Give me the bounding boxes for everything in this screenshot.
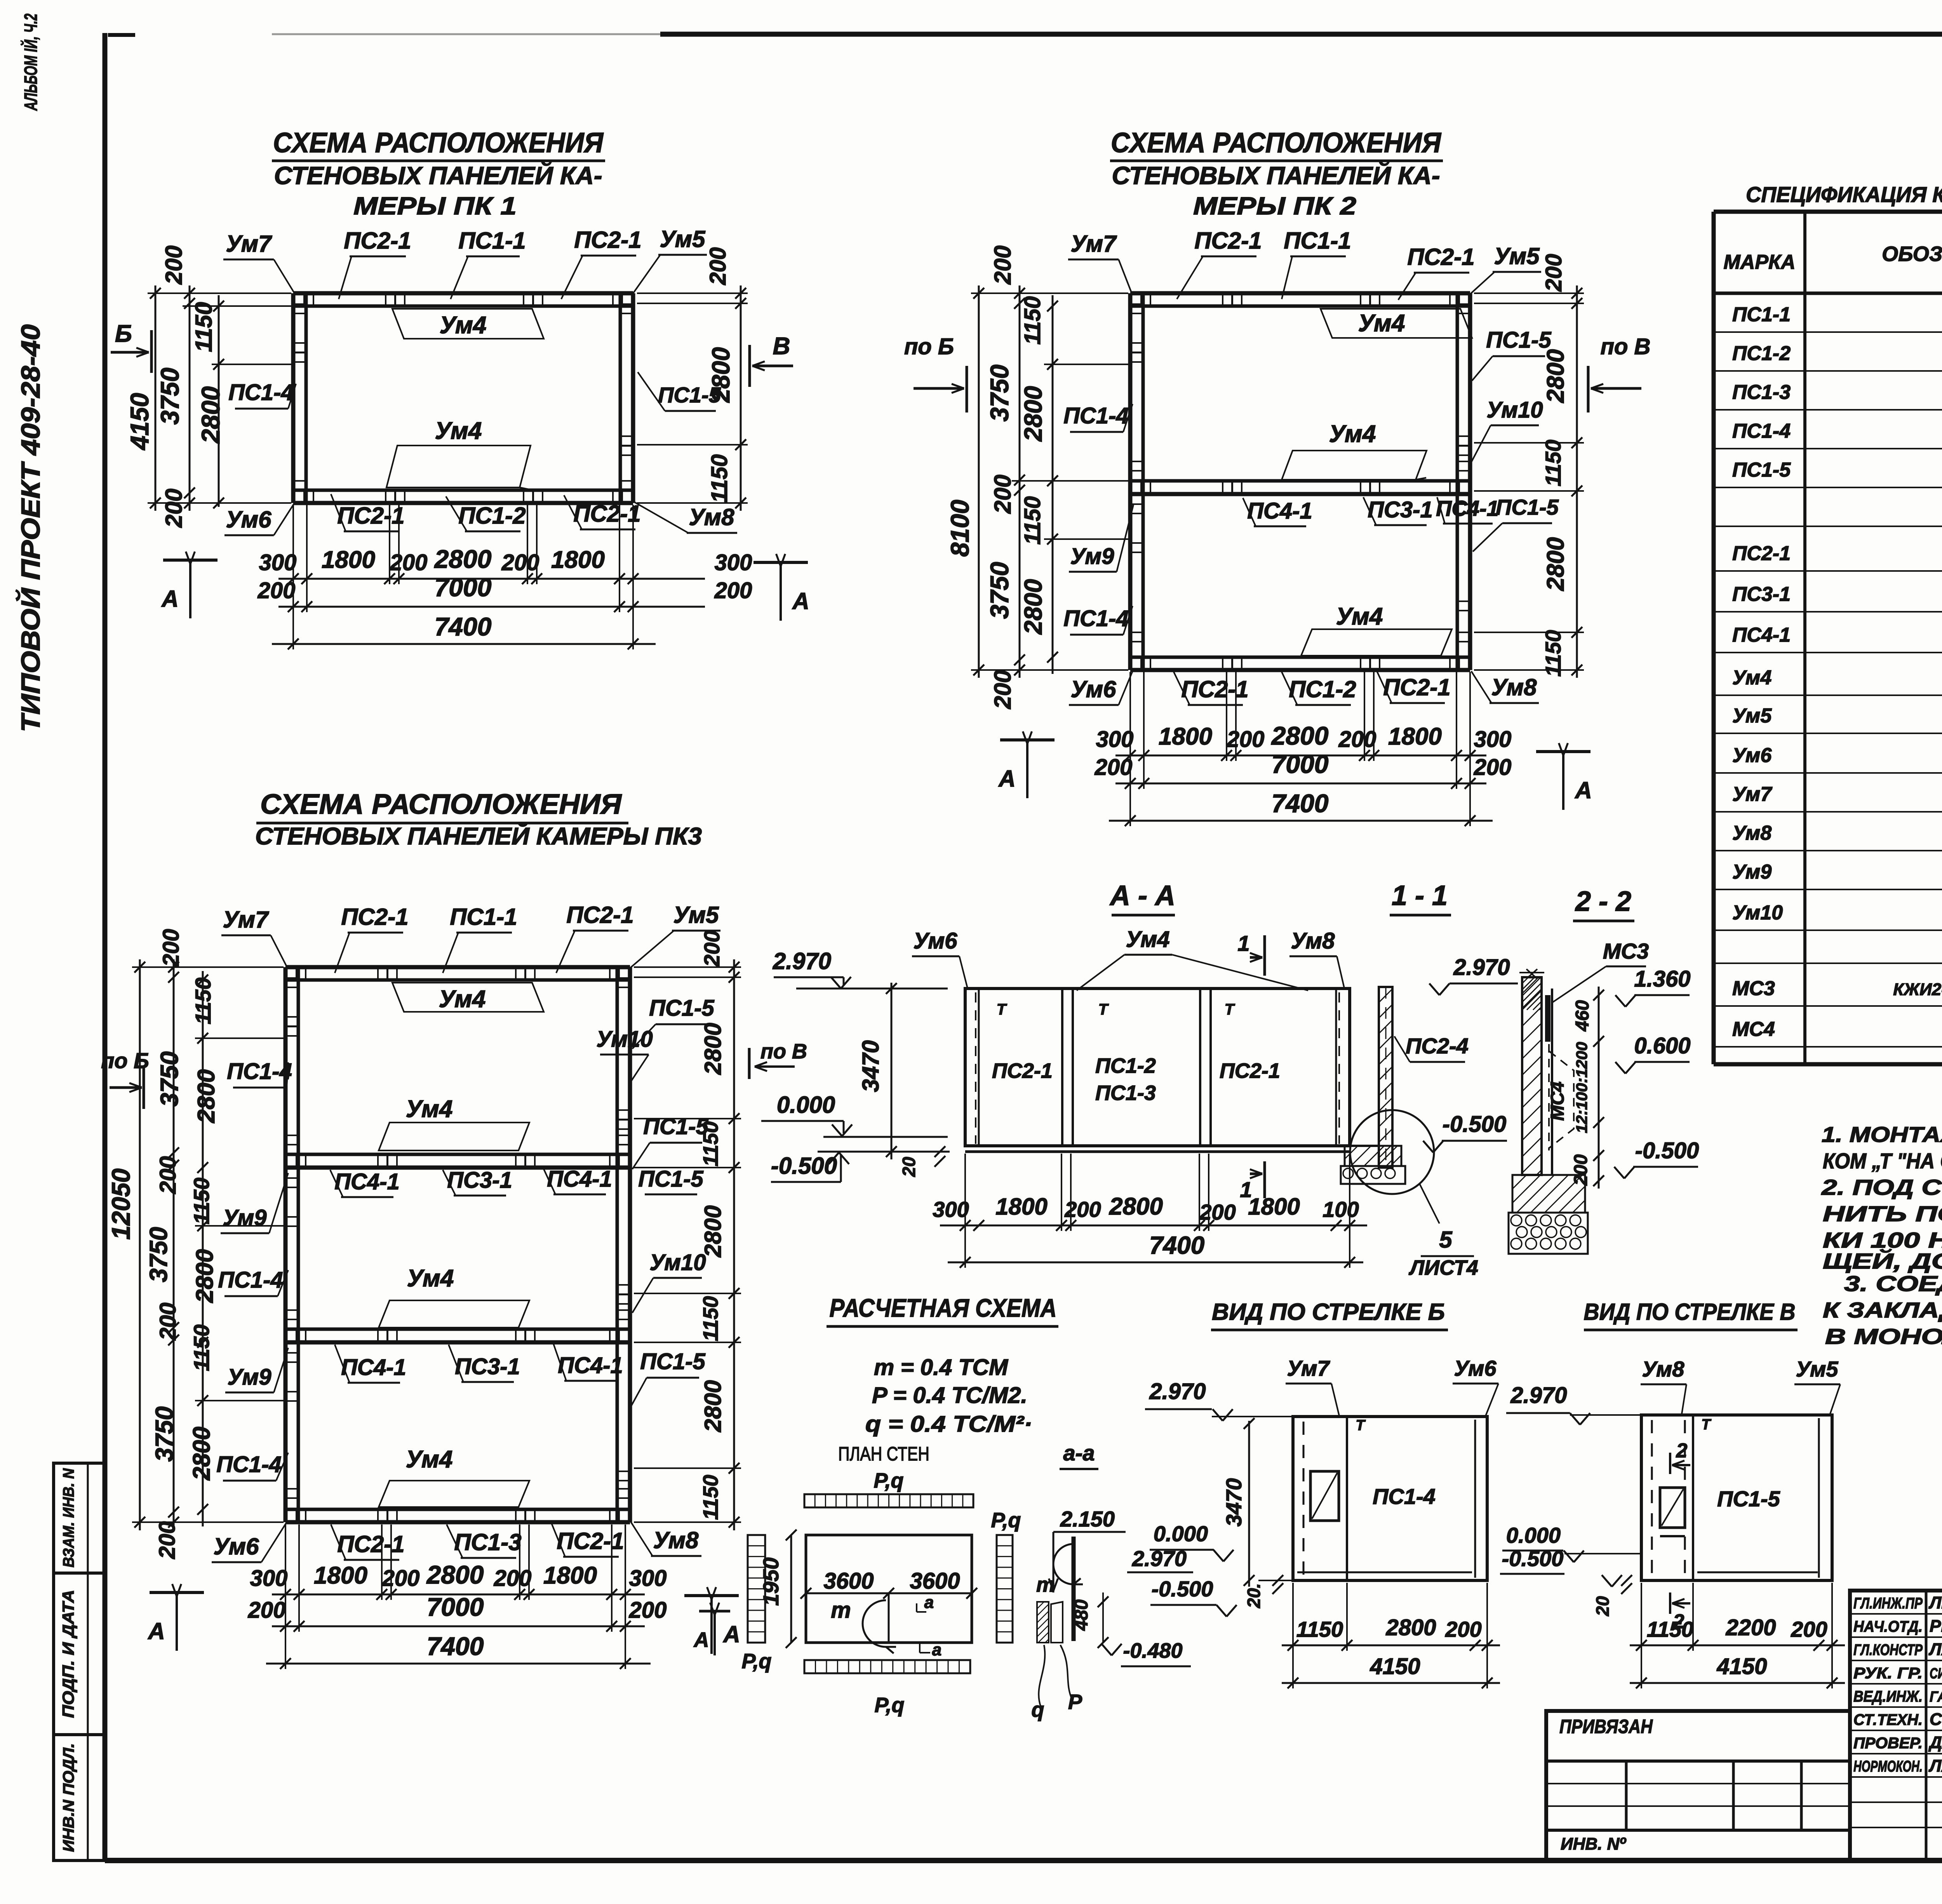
signature row ГЛ.ИНЖ.ПР bbox=[1850, 1613, 1942, 1615]
spec table row ПС4-1 bbox=[1714, 652, 1942, 653]
svg-text:1150: 1150 bbox=[1020, 496, 1045, 545]
svg-text:300: 300 bbox=[933, 1197, 969, 1222]
svg-text:1150: 1150 bbox=[1296, 1617, 1343, 1641]
svg-text:ПС1-4: ПС1-4 bbox=[1063, 606, 1128, 631]
svg-text:7400: 7400 bbox=[427, 1632, 484, 1660]
spec table row Ум6 bbox=[1714, 772, 1942, 774]
svg-text:2.970: 2.970 bbox=[773, 948, 831, 974]
svg-text:ТИПОВОЙ ПРОЕКТ 409-28-40: ТИПОВОЙ ПРОЕКТ 409-28-40 bbox=[15, 324, 45, 732]
svg-text:1150: 1150 bbox=[699, 1121, 722, 1166]
svg-text:Т: Т bbox=[1098, 1001, 1109, 1018]
svg-text:НАЧ.ОТД.: НАЧ.ОТД. bbox=[1853, 1618, 1923, 1635]
view V bottom dims bbox=[1630, 1645, 1845, 1646]
spec table frame bbox=[1714, 210, 1942, 214]
svg-text:q = 0.4 ТС/М²·: q = 0.4 ТС/М²· bbox=[865, 1411, 1032, 1437]
svg-text:q: q bbox=[1032, 1698, 1044, 1721]
section A-A bottom dims row2 bbox=[948, 1262, 1363, 1264]
svg-text:К ЗАКЛАДНОМУ ИЗДЕЛИЮ, ОБРАМЛ: К ЗАКЛАДНОМУ ИЗДЕЛИЮ, ОБРАМЛЯЮЩЕМУ ОТВЕР… bbox=[1823, 1298, 1942, 1322]
svg-text:А: А bbox=[722, 1621, 740, 1647]
plan PK2 left wall bbox=[1128, 293, 1133, 670]
svg-text:-0.500: -0.500 bbox=[771, 1153, 837, 1179]
svg-text:1800: 1800 bbox=[995, 1194, 1047, 1220]
view V mark 2 bottom bbox=[1669, 1592, 1671, 1614]
svg-text:4150: 4150 bbox=[125, 393, 154, 451]
section 1-1 wall bbox=[1379, 987, 1392, 1168]
svg-text:ПС1-1: ПС1-1 bbox=[458, 228, 526, 254]
section A-A bottom dims row1 bbox=[940, 1225, 1367, 1227]
svg-text:ГЛ.КОНСТР: ГЛ.КОНСТР bbox=[1853, 1641, 1923, 1659]
svg-text:ПС3-1: ПС3-1 bbox=[455, 1354, 520, 1379]
spec table row ПС1-4 bbox=[1714, 448, 1942, 449]
svg-text:Ум10: Ум10 bbox=[596, 1027, 653, 1052]
spec table row ПС1-5 bbox=[1714, 487, 1942, 488]
svg-text:Ум5: Ум5 bbox=[673, 902, 720, 928]
plan PK2 bottom dims row2 bbox=[1115, 783, 1486, 785]
svg-text:2800: 2800 bbox=[191, 1249, 218, 1303]
plan PK2 right dims bbox=[1576, 285, 1578, 678]
svg-text:МЕРЫ ПК 2: МЕРЫ ПК 2 bbox=[1193, 192, 1356, 220]
svg-text:СПЕЦИФИКАЦИЯ К СХЕМАМ РАСПОЛ: СПЕЦИФИКАЦИЯ К СХЕМАМ РАСПОЛОЖЕНИЯ СТЕНО… bbox=[1746, 182, 1942, 207]
svg-text:ПС1-2: ПС1-2 bbox=[1289, 676, 1356, 702]
svg-text:ПС1-4: ПС1-4 bbox=[1063, 403, 1128, 428]
svg-text:ПС4-1: ПС4-1 bbox=[1732, 624, 1791, 646]
svg-text:по В: по В bbox=[1601, 334, 1651, 359]
svg-text:ПС1-1: ПС1-1 bbox=[450, 904, 517, 930]
svg-text:Т: Т bbox=[1225, 1001, 1236, 1018]
section A-A panel joints bbox=[978, 989, 980, 1146]
svg-text:ПС2-1: ПС2-1 bbox=[1407, 244, 1474, 270]
svg-text:ДАВЫДОВА: ДАВЫДОВА bbox=[1928, 1733, 1942, 1752]
svg-text:1150: 1150 bbox=[699, 1296, 722, 1341]
svg-text:ОБОЗНАЧЕНИЕ: ОБОЗНАЧЕНИЕ bbox=[1882, 242, 1942, 266]
svg-text:200: 200 bbox=[155, 1521, 180, 1559]
svg-text:200: 200 bbox=[501, 550, 539, 575]
svg-text:МС3: МС3 bbox=[1732, 977, 1775, 1000]
plan PK2 bottom dims row1 bbox=[1115, 755, 1486, 757]
svg-text:Ум5: Ум5 bbox=[1732, 705, 1772, 727]
section mark A bottom-left PK2 bbox=[1000, 738, 1055, 741]
plan PK3 bottom dims row1 bbox=[272, 1594, 645, 1596]
svg-text:ПС2-1: ПС2-1 bbox=[341, 904, 408, 930]
svg-text:Ум10: Ум10 bbox=[649, 1250, 706, 1275]
plan PK2 top wall bbox=[1130, 291, 1470, 296]
signature row НОРМОКОН. bbox=[1850, 1776, 1942, 1778]
svg-text:ПС4-1: ПС4-1 bbox=[334, 1169, 399, 1194]
svg-text:ПС1-5: ПС1-5 bbox=[1717, 1486, 1780, 1511]
svg-text:ВИД ПО СТРЕЛКЕ В: ВИД ПО СТРЕЛКЕ В bbox=[1584, 1299, 1796, 1325]
svg-text:300: 300 bbox=[250, 1566, 288, 1591]
svg-text:2800: 2800 bbox=[426, 1560, 484, 1589]
svg-text:Ум8: Ум8 bbox=[1642, 1357, 1684, 1381]
section a-a q P loads bbox=[1037, 1602, 1049, 1643]
svg-text:ПС1-2: ПС1-2 bbox=[458, 503, 526, 529]
svg-text:СХЕМА РАСПОЛОЖЕНИЯ: СХЕМА РАСПОЛОЖЕНИЯ bbox=[1111, 127, 1441, 158]
svg-text:ПС4-1: ПС4-1 bbox=[547, 1166, 612, 1192]
svg-text:ИНВ. Nº: ИНВ. Nº bbox=[1561, 1834, 1626, 1854]
plan PK1 left dims bbox=[155, 285, 157, 511]
section 2-2 wall bbox=[1522, 977, 1542, 1175]
svg-text:РЫБКИНА: РЫБКИНА bbox=[1930, 1617, 1942, 1636]
svg-text:Ум9: Ум9 bbox=[223, 1205, 267, 1230]
svg-text:1150: 1150 bbox=[189, 1324, 214, 1371]
svg-text:300: 300 bbox=[629, 1566, 667, 1591]
svg-text:2800: 2800 bbox=[1385, 1615, 1436, 1640]
spec table row Ум4 bbox=[1714, 694, 1942, 696]
plan PK1 left wall bbox=[291, 293, 296, 503]
svg-text:7400: 7400 bbox=[1149, 1231, 1204, 1259]
svg-text:7000: 7000 bbox=[1272, 750, 1329, 778]
svg-text:ПС2-1: ПС2-1 bbox=[344, 228, 411, 254]
svg-text:200: 200 bbox=[1338, 727, 1376, 752]
svg-text:Ум9: Ум9 bbox=[1732, 861, 1771, 883]
svg-text:А: А bbox=[693, 1628, 709, 1652]
spec table row ПС1-2 bbox=[1714, 370, 1942, 372]
section mark V right PK1 bbox=[748, 345, 751, 387]
svg-text:Ум5: Ум5 bbox=[1796, 1357, 1838, 1381]
signature row ПРОВЕР. bbox=[1850, 1753, 1942, 1754]
svg-text:СТЕНОВЫХ ПАНЕЛЕЙ КА-: СТЕНОВЫХ ПАНЕЛЕЙ КА- bbox=[274, 161, 602, 190]
svg-text:ПОДП. И ДАТА: ПОДП. И ДАТА bbox=[59, 1590, 77, 1718]
svg-text:А: А bbox=[998, 766, 1015, 792]
svg-text:ПС2-1: ПС2-1 bbox=[574, 227, 641, 253]
svg-text:Ум4: Ум4 bbox=[1358, 310, 1405, 337]
svg-text:P,q: P,q bbox=[874, 1469, 903, 1492]
svg-text:200: 200 bbox=[1095, 755, 1133, 780]
svg-text:2800: 2800 bbox=[1109, 1193, 1163, 1220]
svg-text:Ум8: Ум8 bbox=[1732, 822, 1771, 844]
svg-text:СТЕНОВЫХ ПАНЕЛЕЙ КА-: СТЕНОВЫХ ПАНЕЛЕЙ КА- bbox=[1112, 161, 1440, 190]
section 1-1 detail circle 5 bbox=[1350, 1110, 1434, 1194]
spec table row blank bbox=[1714, 526, 1942, 527]
svg-text:1800: 1800 bbox=[1388, 723, 1442, 750]
svg-text:2800: 2800 bbox=[196, 386, 225, 444]
svg-text:3750: 3750 bbox=[155, 367, 184, 425]
svg-text:Ум6: Ум6 bbox=[914, 928, 958, 954]
signature row НАЧ.ОТД. bbox=[1850, 1636, 1942, 1638]
svg-text:НОРМОКОН.: НОРМОКОН. bbox=[1853, 1758, 1923, 1775]
plan PK3 bottom wall bbox=[285, 1520, 630, 1525]
calc scheme A arrow left bbox=[699, 1610, 730, 1613]
svg-text:по Б: по Б bbox=[904, 334, 954, 359]
svg-text:P = 0.4 ТС/М2.: P = 0.4 ТС/М2. bbox=[872, 1383, 1027, 1408]
plan PK1 top wall bbox=[293, 291, 633, 296]
plan PK3 divider wall 1 bbox=[285, 1166, 630, 1170]
svg-text:200: 200 bbox=[629, 1598, 667, 1623]
svg-text:Ум6: Ум6 bbox=[1732, 744, 1772, 767]
svg-text:ЛЮБАВИН: ЛЮБАВИН bbox=[1928, 1593, 1942, 1612]
svg-text:ПС1-2: ПС1-2 bbox=[1095, 1054, 1156, 1077]
svg-text:Ум7: Ум7 bbox=[226, 231, 273, 257]
plan PK2 middle wall bbox=[1130, 492, 1470, 496]
svg-text:МС4: МС4 bbox=[1732, 1018, 1775, 1041]
svg-text:1. МОНТАЖ СТЕНОВЫХ ПАНЕЛЕЙ: 1. МОНТАЖ СТЕНОВЫХ ПАНЕЛЕЙ ВЕСТИ В СООТВ… bbox=[1822, 1122, 1942, 1147]
svg-text:ПС2-1: ПС2-1 bbox=[1181, 676, 1248, 702]
spec table row МС3 bbox=[1714, 1005, 1942, 1007]
svg-text:А: А bbox=[147, 1618, 165, 1644]
view V panel bbox=[1641, 1415, 1832, 1580]
svg-text:ПС4-1: ПС4-1 bbox=[1436, 496, 1499, 520]
svg-text:Ум8: Ум8 bbox=[1291, 928, 1335, 954]
svg-text:2800: 2800 bbox=[1019, 579, 1047, 635]
svg-text:Ум8: Ум8 bbox=[1491, 674, 1537, 700]
svg-text:РУК. ГР.: РУК. ГР. bbox=[1853, 1665, 1923, 1682]
svg-text:300: 300 bbox=[259, 550, 297, 575]
svg-text:480: 480 bbox=[1071, 1599, 1092, 1631]
svg-text:ПРОВЕР.: ПРОВЕР. bbox=[1853, 1735, 1923, 1752]
signature table bbox=[1850, 1591, 1942, 1860]
section A-A mark 1 bottom bbox=[1263, 1161, 1266, 1198]
svg-text:200: 200 bbox=[382, 1566, 420, 1591]
svg-text:ПС2-1: ПС2-1 bbox=[1383, 674, 1450, 700]
svg-text:20: 20 bbox=[899, 1157, 919, 1177]
svg-text:2800: 2800 bbox=[700, 1023, 726, 1075]
svg-text:ПС2-1: ПС2-1 bbox=[1194, 228, 1262, 254]
svg-text:P,q: P,q bbox=[874, 1693, 904, 1717]
svg-text:2800: 2800 bbox=[707, 347, 735, 403]
svg-text:а: а bbox=[924, 1593, 934, 1612]
calc scheme right load strip bbox=[997, 1535, 1013, 1643]
plan PK3 top wall bbox=[285, 965, 630, 969]
svg-text:Ум7: Ум7 bbox=[1071, 231, 1117, 257]
svg-text:2 - 2: 2 - 2 bbox=[1575, 886, 1631, 917]
svg-text:300: 300 bbox=[1474, 727, 1512, 752]
svg-text:ПС2-1: ПС2-1 bbox=[337, 1531, 404, 1557]
svg-text:3750: 3750 bbox=[155, 1051, 183, 1107]
svg-text:Ум7: Ум7 bbox=[1287, 1356, 1330, 1380]
svg-text:Ум6: Ум6 bbox=[1071, 676, 1117, 702]
plan PK3 left wall bbox=[284, 967, 288, 1522]
svg-text:ЛАПКИН: ЛАПКИН bbox=[1928, 1756, 1942, 1775]
svg-text:ПС1-4: ПС1-4 bbox=[216, 1452, 281, 1477]
section 2-2 MS3 bar bbox=[1545, 995, 1550, 1042]
svg-text:200: 200 bbox=[1791, 1617, 1827, 1641]
section 2-2 foundation bbox=[1512, 1175, 1585, 1213]
svg-text:m = 0.4 ТСМ: m = 0.4 ТСМ bbox=[874, 1355, 1009, 1380]
spec table row Ум10 bbox=[1714, 929, 1942, 931]
svg-text:m: m bbox=[1036, 1573, 1055, 1596]
spec table row МС4 bbox=[1714, 1046, 1942, 1048]
svg-text:2800: 2800 bbox=[434, 545, 492, 573]
svg-text:200: 200 bbox=[714, 578, 752, 603]
svg-text:ПРИВЯЗАН: ПРИВЯЗАН bbox=[1559, 1716, 1653, 1737]
svg-text:200: 200 bbox=[158, 929, 184, 967]
svg-text:3. СОЕДИНИТЕЛЬНЫЕ ИЗДЕЛИЯ: 3. СОЕДИНИТЕЛЬНЫЕ ИЗДЕЛИЯ МС3, МС4 ПРИВА… bbox=[1844, 1271, 1942, 1296]
view B dim 3470 bbox=[1248, 1421, 1250, 1587]
svg-text:Ум10: Ум10 bbox=[1486, 397, 1543, 423]
section 2-2 vert dim chain bbox=[1598, 987, 1600, 1189]
signature row ГЛ.КОНСТР bbox=[1850, 1660, 1942, 1661]
svg-text:3470: 3470 bbox=[1222, 1478, 1246, 1527]
svg-text:Ум4: Ум4 bbox=[406, 1446, 453, 1473]
svg-text:ПС3-1: ПС3-1 bbox=[1732, 583, 1791, 606]
svg-text:200: 200 bbox=[155, 1156, 181, 1194]
svg-text:2.150: 2.150 bbox=[1060, 1507, 1115, 1531]
svg-text:СТЕНОВЫХ ПАНЕЛЕЙ КАМЕРЫ ПК3: СТЕНОВЫХ ПАНЕЛЕЙ КАМЕРЫ ПК3 bbox=[255, 822, 702, 850]
svg-text:ПС1-4: ПС1-4 bbox=[1732, 420, 1791, 442]
sheet border frame bbox=[103, 33, 108, 1860]
svg-text:0.600: 0.600 bbox=[1634, 1033, 1690, 1058]
svg-text:300: 300 bbox=[1096, 727, 1134, 752]
svg-text:0.000: 0.000 bbox=[1154, 1521, 1208, 1546]
svg-text:МАРКА: МАРКА bbox=[1723, 251, 1795, 273]
plan PK3 right dims bbox=[733, 959, 735, 1530]
svg-text:ПС1-2: ПС1-2 bbox=[1732, 342, 1791, 365]
svg-text:Т: Т bbox=[1356, 1417, 1366, 1434]
svg-text:0.000: 0.000 bbox=[1506, 1523, 1561, 1547]
spec table row ПС1-3 bbox=[1714, 409, 1942, 411]
svg-text:по Б: по Б bbox=[101, 1048, 149, 1073]
svg-text:20.: 20. bbox=[1244, 1583, 1264, 1608]
svg-text:4150: 4150 bbox=[1369, 1654, 1420, 1679]
svg-text:ПС1-4: ПС1-4 bbox=[228, 380, 293, 405]
svg-text:ПС1-5: ПС1-5 bbox=[1732, 459, 1791, 481]
plan PK1 right dims bbox=[740, 285, 742, 511]
svg-text:ПС1-3: ПС1-3 bbox=[454, 1529, 521, 1555]
svg-text:Ум9: Ум9 bbox=[228, 1364, 271, 1390]
plan PK1 bottom dims row1 bbox=[278, 578, 705, 580]
svg-text:ПС1-5: ПС1-5 bbox=[1486, 327, 1551, 353]
svg-text:3600: 3600 bbox=[910, 1568, 960, 1594]
svg-text:2800: 2800 bbox=[1542, 349, 1569, 403]
view B bottom dims bbox=[1282, 1645, 1500, 1646]
calc scheme main rect bbox=[806, 1535, 972, 1643]
signature row ВЕД.ИНЖ. bbox=[1850, 1706, 1942, 1708]
svg-text:ПС4-1: ПС4-1 bbox=[341, 1355, 406, 1380]
plan PK2 bottom wall bbox=[1130, 668, 1470, 672]
svg-text:3750: 3750 bbox=[144, 1227, 172, 1282]
svg-text:ПС1-5: ПС1-5 bbox=[1496, 495, 1559, 519]
svg-text:А - А: А - А bbox=[1109, 880, 1175, 911]
plan PK1 right wall bbox=[631, 293, 635, 503]
svg-text:12050: 12050 bbox=[106, 1168, 135, 1240]
svg-text:1150: 1150 bbox=[191, 302, 217, 352]
svg-text:20: 20 bbox=[1592, 1596, 1613, 1617]
svg-text:200: 200 bbox=[1445, 1617, 1481, 1641]
svg-text:ПС3-1: ПС3-1 bbox=[1368, 497, 1432, 522]
plan PK1 bottom dims row2 bbox=[278, 606, 705, 608]
svg-text:ПС2-1: ПС2-1 bbox=[557, 1528, 624, 1554]
svg-text:2.970: 2.970 bbox=[1132, 1546, 1187, 1571]
svg-text:Ум8: Ум8 bbox=[689, 504, 735, 530]
view B window bbox=[1310, 1471, 1339, 1521]
plan PK3 left dims bbox=[139, 959, 141, 1530]
svg-text:7400: 7400 bbox=[435, 612, 492, 641]
svg-text:ПС2-1: ПС2-1 bbox=[337, 503, 404, 529]
svg-text:ЛАПКИН: ЛАПКИН bbox=[1928, 1640, 1942, 1659]
view B panel bbox=[1293, 1417, 1487, 1580]
svg-text:a-a: a-a bbox=[1063, 1441, 1095, 1465]
svg-text:200: 200 bbox=[390, 550, 428, 575]
svg-text:А: А bbox=[792, 588, 809, 614]
svg-text:А: А bbox=[1574, 777, 1592, 803]
svg-text:1.360: 1.360 bbox=[1634, 966, 1690, 992]
svg-text:1150: 1150 bbox=[699, 1475, 722, 1520]
svg-text:200: 200 bbox=[700, 930, 724, 967]
svg-text:-0.480: -0.480 bbox=[1123, 1639, 1182, 1662]
svg-text:3750: 3750 bbox=[150, 1406, 178, 1462]
svg-text:1800: 1800 bbox=[551, 546, 605, 573]
svg-text:Ум6: Ум6 bbox=[214, 1533, 259, 1559]
svg-text:Ум4: Ум4 bbox=[1329, 421, 1376, 447]
svg-text:Ум5: Ум5 bbox=[660, 226, 706, 252]
svg-text:2.970: 2.970 bbox=[1510, 1383, 1567, 1408]
svg-text:1150: 1150 bbox=[189, 1178, 214, 1224]
section A-A vert dim 3470 bbox=[891, 983, 893, 1159]
section A-A panel outline bbox=[965, 989, 1350, 1146]
svg-text:МС4: МС4 bbox=[1547, 1081, 1568, 1121]
svg-text:ПС2-1: ПС2-1 bbox=[1220, 1059, 1280, 1083]
svg-text:-0.500: -0.500 bbox=[1502, 1546, 1564, 1571]
svg-text:-0.500: -0.500 bbox=[1635, 1138, 1699, 1163]
svg-text:ПС2-1: ПС2-1 bbox=[1732, 542, 1791, 565]
svg-text:1150: 1150 bbox=[191, 978, 215, 1024]
svg-text:200: 200 bbox=[1064, 1197, 1101, 1222]
svg-text:1 - 1: 1 - 1 bbox=[1392, 880, 1448, 911]
svg-text:1800: 1800 bbox=[1248, 1194, 1300, 1220]
svg-text:200: 200 bbox=[248, 1598, 286, 1623]
svg-text:2800: 2800 bbox=[193, 1069, 220, 1123]
svg-text:2.970: 2.970 bbox=[1149, 1379, 1206, 1404]
svg-text:по В: по В bbox=[760, 1040, 807, 1063]
svg-text:460: 460 bbox=[1572, 1000, 1593, 1032]
plan PK3 right wall bbox=[628, 967, 632, 1522]
svg-text:СТ.ТЕХН.: СТ.ТЕХН. bbox=[1853, 1711, 1923, 1728]
svg-text:Ум4: Ум4 bbox=[1732, 667, 1771, 689]
spec table row blank bbox=[1714, 962, 1942, 964]
svg-text:1150: 1150 bbox=[707, 454, 732, 503]
svg-text:ГЛ.ИНЖ.ПР: ГЛ.ИНЖ.ПР bbox=[1853, 1595, 1923, 1612]
section a-a moment arc bbox=[1053, 1544, 1074, 1584]
calc scheme bottom load strip bbox=[804, 1660, 970, 1673]
svg-text:1800: 1800 bbox=[543, 1562, 597, 1589]
svg-text:В МОНОЛИТНЫХ УЧАСТКАХ УМ: В МОНОЛИТНЫХ УЧАСТКАХ УМ8, УМ10. bbox=[1825, 1324, 1942, 1349]
svg-text:ПС1-4: ПС1-4 bbox=[227, 1059, 292, 1084]
svg-text:200: 200 bbox=[990, 475, 1016, 514]
svg-text:Ум4: Ум4 bbox=[440, 312, 487, 339]
plan PK1 bottom dims row3 bbox=[272, 643, 656, 645]
svg-text:m: m bbox=[831, 1598, 851, 1623]
svg-text:КОМ „Т "НА СХЕМАХ РАСПОЛОЖЕН: КОМ „Т "НА СХЕМАХ РАСПОЛОЖЕНИЯ СТЕНОВЫХ … bbox=[1823, 1149, 1942, 1173]
svg-text:2800: 2800 bbox=[1019, 386, 1047, 442]
section 1-1 foundation bbox=[1341, 1145, 1379, 1147]
svg-text:Ум6: Ум6 bbox=[226, 506, 272, 533]
svg-text:4150: 4150 bbox=[1716, 1654, 1767, 1679]
svg-text:а: а bbox=[932, 1640, 941, 1659]
spec table row Ум5 bbox=[1714, 733, 1942, 734]
svg-text:ВЗАМ. ИНВ. N: ВЗАМ. ИНВ. N bbox=[60, 1468, 77, 1567]
calc scheme left load strip bbox=[748, 1535, 765, 1643]
svg-text:200: 200 bbox=[705, 247, 731, 285]
svg-text:ПС2-1: ПС2-1 bbox=[566, 902, 633, 928]
spec table row Ум8 bbox=[1714, 850, 1942, 851]
svg-text:ПС1-5: ПС1-5 bbox=[649, 996, 714, 1021]
svg-text:Ум7: Ум7 bbox=[1732, 783, 1772, 806]
svg-text:АЛЬБОМ IЙ, Ч.2: АЛЬБОМ IЙ, Ч.2 bbox=[21, 14, 41, 111]
svg-text:-0.500: -0.500 bbox=[1443, 1112, 1506, 1137]
svg-text:ПС1-1: ПС1-1 bbox=[1732, 303, 1791, 326]
section 2-2 ms4 dashed callout bbox=[1549, 1051, 1574, 1148]
svg-text:Б: Б bbox=[115, 320, 132, 347]
svg-text:200: 200 bbox=[1571, 1154, 1591, 1186]
svg-text:ПС1-3: ПС1-3 bbox=[1095, 1081, 1156, 1105]
svg-text:Ум8: Ум8 bbox=[653, 1527, 699, 1553]
svg-text:Ум4: Ум4 bbox=[1126, 927, 1170, 952]
svg-text:Ум6: Ум6 bbox=[1454, 1356, 1497, 1380]
calc scheme 1950 dim bbox=[790, 1535, 792, 1643]
svg-text:КЖИ2-МН1÷МН3,МС1÷МС8: КЖИ2-МН1÷МН3,МС1÷МС8 bbox=[1893, 980, 1942, 999]
spec table row ПС2-1 bbox=[1714, 570, 1942, 572]
svg-text:ПС2-1: ПС2-1 bbox=[573, 501, 640, 527]
